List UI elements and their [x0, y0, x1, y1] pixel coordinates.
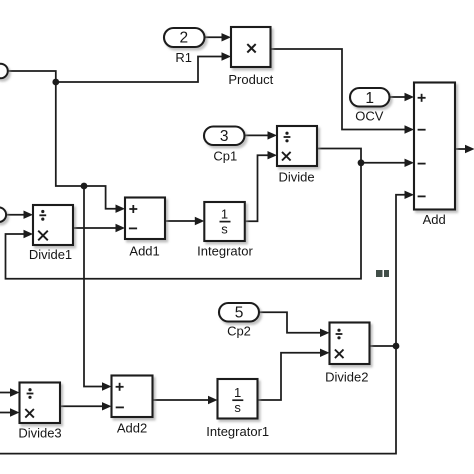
- oval port 2 with label R1: [164, 28, 205, 65]
- block Divide1: [29, 205, 73, 262]
- wire oval Cp2 to Divide2 div input: [259, 312, 322, 333]
- oval port 5 with label Cp2: [219, 303, 259, 338]
- svg-text:Divide1: Divide1: [29, 247, 72, 262]
- svg-text:Divide: Divide: [278, 170, 314, 185]
- svg-text:Add: Add: [423, 212, 446, 227]
- wire oval Cp1 to Divide div input: [245, 134, 270, 136]
- block Integrator: [197, 202, 253, 258]
- node junction J2: [81, 183, 88, 190]
- wire left edge to Divide3 div input: [0, 392, 12, 394]
- svg-text:3: 3: [220, 128, 229, 145]
- wire Add output to right edge: [455, 148, 466, 150]
- svg-text:Divide2: Divide2: [325, 369, 368, 384]
- inport In1 circle: [0, 64, 8, 79]
- wire oval R1 to Product input 1: [205, 36, 224, 38]
- wire inport In2 to Divide1 div input: [6, 214, 25, 216]
- wire Add2 output to Integrator1 input: [153, 399, 210, 401]
- wire oval OCV to Add input 1: [390, 96, 407, 98]
- svg-text:Integrator1: Integrator1: [206, 424, 269, 439]
- block Add: [414, 83, 455, 227]
- wire Integrator1 output loop to Divide2 times input: [258, 353, 322, 400]
- svg-text:Add1: Add1: [129, 244, 159, 259]
- node junction J4: [393, 343, 400, 350]
- svg-text:R1: R1: [175, 50, 192, 65]
- svg-text:Cp1: Cp1: [213, 149, 237, 164]
- block Divide2: [325, 323, 369, 385]
- wire Add1 output to Integrator input: [165, 220, 196, 222]
- block Add2: [112, 376, 153, 436]
- annotation marker squares: [376, 270, 389, 277]
- svg-text:5: 5: [235, 305, 244, 322]
- wire from inport In1 to Add1 plus input: [8, 71, 117, 209]
- svg-text:s: s: [234, 400, 241, 415]
- block Integrator1: [206, 379, 269, 439]
- block Add1: [125, 198, 165, 259]
- wire J4 up to Add input 4: [396, 195, 406, 346]
- node junction J1: [52, 79, 59, 86]
- wire J4 down and along bottom to left edge: [0, 346, 396, 454]
- svg-text:Integrator: Integrator: [197, 243, 253, 258]
- wire Divide2 output to junction J4: [370, 345, 397, 347]
- svg-text:1: 1: [365, 90, 374, 107]
- wire Divide output to junction J3 and Add input 3: [317, 149, 406, 163]
- wire J3 down and around to Divide1 times input: [6, 163, 362, 279]
- svg-text:Add2: Add2: [117, 421, 147, 436]
- wire Product output to Add input 2: [271, 49, 407, 130]
- svg-text:Product: Product: [228, 72, 273, 87]
- wire Integrator output loop to Divide times input: [245, 155, 269, 221]
- wire Divide3 output to Add2 minus input: [60, 405, 104, 407]
- block Divide: [277, 126, 317, 185]
- block Divide3: [18, 383, 61, 441]
- svg-text:2: 2: [179, 30, 188, 47]
- wire branch J1 to Product input 2: [56, 57, 223, 83]
- svg-text:OCV: OCV: [355, 109, 384, 124]
- wire Divide1 output to Add1 minus input: [73, 227, 117, 229]
- wire left edge to Divide3 times input: [0, 412, 12, 414]
- block Product: [228, 27, 273, 87]
- svg-text:1: 1: [234, 385, 241, 400]
- svg-text:Cp2: Cp2: [227, 323, 251, 338]
- oval port 1 with label OCV: [350, 88, 390, 124]
- svg-text:Divide3: Divide3: [18, 426, 61, 441]
- inport In2 circle: [0, 207, 6, 222]
- oval port 3 with label Cp1: [204, 127, 245, 164]
- node junction J3: [358, 159, 365, 166]
- svg-text:s: s: [221, 222, 228, 237]
- svg-text:1: 1: [221, 206, 228, 221]
- wire branch J2 to Add2 plus input: [84, 186, 104, 387]
